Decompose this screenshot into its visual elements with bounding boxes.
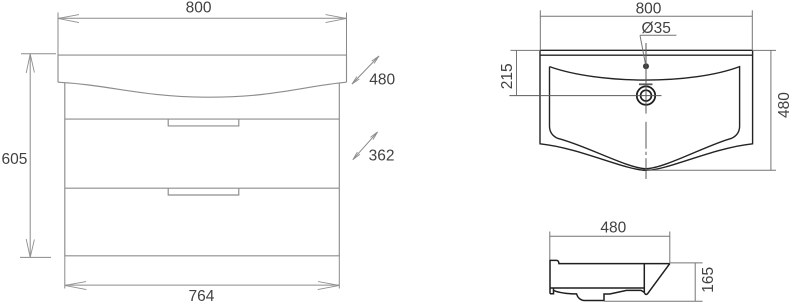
svg-text:605: 605 (1, 151, 27, 168)
svg-text:480: 480 (600, 220, 626, 237)
svg-text:Ø35: Ø35 (642, 20, 671, 37)
svg-text:480: 480 (776, 92, 790, 118)
svg-text:215: 215 (499, 63, 516, 89)
svg-text:165: 165 (700, 267, 717, 293)
svg-text:800: 800 (636, 0, 662, 17)
svg-text:362: 362 (369, 147, 395, 164)
svg-text:800: 800 (186, 0, 212, 17)
svg-text:764: 764 (188, 288, 214, 303)
svg-text:480: 480 (369, 72, 395, 89)
